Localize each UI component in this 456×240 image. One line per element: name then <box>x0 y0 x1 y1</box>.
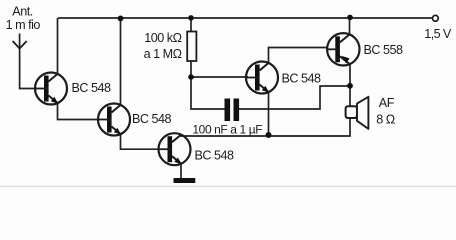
svg-text:1 m fio: 1 m fio <box>6 18 41 32</box>
svg-text:a 1 MΩ: a 1 MΩ <box>144 47 182 61</box>
svg-text:1,5 V: 1,5 V <box>424 27 452 41</box>
svg-text:BC 548: BC 548 <box>72 81 112 95</box>
svg-text:Ant.: Ant. <box>12 5 32 19</box>
svg-text:100 kΩ: 100 kΩ <box>144 31 181 45</box>
svg-text:AF: AF <box>379 96 395 110</box>
svg-text:BC 548: BC 548 <box>132 112 172 126</box>
svg-text:BC 548: BC 548 <box>195 149 235 163</box>
svg-text:100 nF a 1 µF: 100 nF a 1 µF <box>192 122 262 136</box>
svg-text:BC 558: BC 558 <box>364 43 404 57</box>
svg-text:8 Ω: 8 Ω <box>376 112 395 126</box>
svg-text:BC 548: BC 548 <box>282 72 322 86</box>
